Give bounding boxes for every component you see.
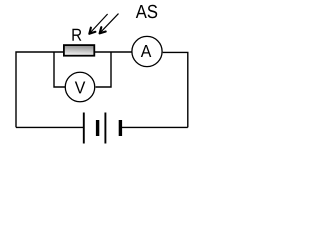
wire voltmeter branch left xyxy=(54,52,65,87)
wire ammeter to top-right corner xyxy=(163,52,188,127)
wire bottom-left to battery xyxy=(16,126,84,128)
battery cell 1 long plate xyxy=(83,113,85,144)
light arrow 2 xyxy=(100,14,119,34)
resistor R xyxy=(64,45,94,56)
ammeter A1 xyxy=(132,36,162,66)
battery cell 2 long plate xyxy=(104,113,106,144)
light arrow 1 xyxy=(89,14,107,34)
voltmeter V1 xyxy=(65,72,95,102)
wire voltmeter branch right xyxy=(96,52,111,87)
label R xyxy=(72,29,81,41)
wire top-left segment xyxy=(16,52,64,127)
battery cell 2 short plate xyxy=(119,120,122,136)
wire resistor to ammeter xyxy=(95,51,132,53)
label AS xyxy=(136,5,147,18)
battery cell 1 short plate xyxy=(96,120,99,136)
wire battery to bottom-right xyxy=(120,126,187,128)
